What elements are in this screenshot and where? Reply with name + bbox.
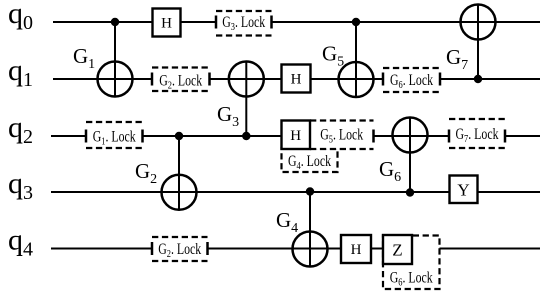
CNOT target G3 on q1 xyxy=(229,62,264,97)
svg-text:G7: G7 xyxy=(446,45,468,73)
svg-text:H: H xyxy=(291,72,302,88)
lock box G5.Lock on q2 xyxy=(310,121,374,150)
gate H on q4 xyxy=(341,235,371,263)
svg-text:q0: q0 xyxy=(8,0,33,34)
lock box G7.Lock on q2 xyxy=(449,119,505,148)
qubit wire q2 xyxy=(51,135,540,137)
wire CNOT G2 vertical xyxy=(178,136,180,211)
svg-text:G6: G6 xyxy=(379,157,401,185)
control dot G2 on q2 xyxy=(175,132,183,140)
svg-text:Z: Z xyxy=(392,240,402,259)
svg-text:G1. Lock: G1. Lock xyxy=(93,129,136,148)
svg-text:G2. Lock: G2. Lock xyxy=(158,241,201,260)
svg-text:q4: q4 xyxy=(8,224,33,261)
svg-text:G1: G1 xyxy=(73,44,95,72)
svg-text:H: H xyxy=(351,242,362,258)
control dot G7 on q1 xyxy=(474,75,482,83)
svg-text:G3. Lock: G3. Lock xyxy=(222,14,265,33)
svg-text:G7. Lock: G7. Lock xyxy=(456,126,499,145)
wire CNOT G4 vertical xyxy=(309,192,311,268)
qubit wire q3 xyxy=(51,191,540,193)
wire CNOT G6 vertical xyxy=(409,117,411,193)
svg-text:q2: q2 xyxy=(8,111,33,148)
qubit wire q4 xyxy=(51,248,540,250)
lock box G2.Lock on q4 xyxy=(152,237,208,261)
gate H on q2 xyxy=(282,121,311,150)
lock box G3.Lock on q0 xyxy=(216,11,272,36)
svg-text:G3: G3 xyxy=(217,102,239,130)
CNOT target G4 on q4 xyxy=(293,232,328,267)
control dot G1 on q0 xyxy=(111,18,119,26)
svg-text:G4. Lock: G4. Lock xyxy=(288,153,331,172)
wire CNOT G3 vertical xyxy=(245,61,247,136)
svg-text:H: H xyxy=(161,15,172,31)
lock box G1.Lock on q2 xyxy=(86,122,143,148)
svg-text:G6. Lock: G6. Lock xyxy=(390,270,433,289)
CNOT target G2 on q3 xyxy=(162,175,197,210)
svg-text:G6. Lock: G6. Lock xyxy=(390,72,433,91)
gate Y on q3 xyxy=(450,176,478,204)
svg-text:G2. Lock: G2. Lock xyxy=(159,73,202,92)
CNOT target G1 on q1 xyxy=(98,62,133,97)
lock box G4.Lock below q2 xyxy=(282,148,338,172)
wire CNOT G1 vertical xyxy=(114,22,116,97)
wire CNOT G7 vertical xyxy=(477,4,479,79)
control dot G6 on q3 xyxy=(406,188,414,196)
control dot G3 on q2 xyxy=(242,132,250,140)
lock box G6.Lock below q4 xyxy=(383,236,440,290)
qubit wire q0 xyxy=(53,21,540,23)
svg-text:G5: G5 xyxy=(322,42,344,70)
svg-text:Y: Y xyxy=(457,180,469,199)
control dot G5 on q0 xyxy=(352,18,360,26)
svg-text:q3: q3 xyxy=(8,167,33,204)
wire CNOT G5 vertical xyxy=(355,22,357,98)
CNOT target G7 on q0 xyxy=(461,5,496,40)
control dot G4 on q3 xyxy=(306,187,314,195)
lock box G6.Lock on q1 xyxy=(383,68,440,92)
svg-text:G4: G4 xyxy=(276,208,298,236)
gate Z on q4 xyxy=(383,235,412,264)
CNOT target G5 on q1 xyxy=(339,62,374,97)
qubit wire q1 xyxy=(53,78,540,80)
CNOT target G6 on q2 xyxy=(393,118,428,153)
svg-text:G5. Lock: G5. Lock xyxy=(320,127,363,146)
svg-text:G2: G2 xyxy=(135,159,157,187)
svg-text:q1: q1 xyxy=(8,54,33,91)
lock box G2.Lock on q1 xyxy=(152,68,210,92)
gate H on q0 xyxy=(153,9,181,37)
gate H on q1 xyxy=(282,65,311,93)
svg-text:H: H xyxy=(290,128,301,144)
